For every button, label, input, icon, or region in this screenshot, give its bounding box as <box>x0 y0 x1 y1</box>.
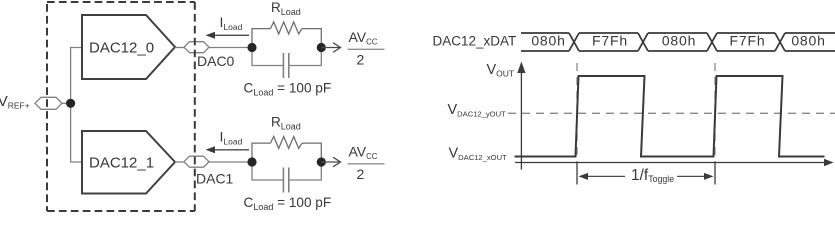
svg-text:2: 2 <box>357 166 365 182</box>
node right (upper) <box>317 43 326 52</box>
svg-text:DAC12_1: DAC12_1 <box>89 155 154 172</box>
wire VREF+ vertical bus <box>71 48 82 163</box>
node left (lower) <box>247 157 256 166</box>
DAC12_1 block <box>82 131 175 194</box>
module boundary dashed box <box>47 2 195 211</box>
node right (lower) <box>317 157 326 166</box>
transition marker dashed vertical 1 <box>576 63 578 162</box>
resistor RLoad (lower) <box>252 137 321 158</box>
svg-text:080h: 080h <box>662 33 696 49</box>
output waveform VOUT <box>515 76 825 157</box>
bus data labels <box>531 33 825 49</box>
label AVCC/2 (upper) <box>348 29 385 67</box>
label AVCC/2 (lower) <box>348 144 385 182</box>
pin DAC0 hexagon <box>184 42 209 53</box>
bus top lines <box>521 32 835 34</box>
pin DAC1 hexagon <box>184 156 209 167</box>
current arrow ILoad (upper) <box>206 32 250 39</box>
time axis <box>515 159 834 166</box>
data bus waveform <box>521 33 835 51</box>
bus bottom lines <box>521 50 835 52</box>
svg-text:DAC12_xDAT: DAC12_xDAT <box>433 34 517 49</box>
transition marker solid 1 <box>576 162 578 185</box>
wire to AVCC/2 (upper) <box>321 43 340 53</box>
svg-text:DAC12_0: DAC12_0 <box>89 40 154 57</box>
crossover 1 <box>569 33 579 51</box>
svg-text:DAC1: DAC1 <box>196 171 234 187</box>
transition marker dashed vertical 2 <box>714 63 716 162</box>
capacitor CLoad (upper) <box>252 52 321 78</box>
wire to AVCC/2 (lower) <box>321 157 340 167</box>
svg-text:2: 2 <box>357 52 365 68</box>
svg-text:080h: 080h <box>531 33 565 49</box>
DAC12_0 block <box>82 15 175 79</box>
node left (upper) <box>247 43 256 52</box>
svg-text:DAC0: DAC0 <box>197 53 235 69</box>
junction VREF+ node <box>66 99 75 108</box>
crossover 3 <box>707 33 717 51</box>
toggle period arrow right <box>677 173 714 180</box>
transition marker solid 2 <box>714 162 716 185</box>
wire DAC0 to load node <box>209 47 252 49</box>
crossover 2 <box>638 33 648 51</box>
wire DAC12_1 output <box>175 161 184 163</box>
resistor RLoad (upper) <box>252 22 321 43</box>
svg-text:F7Fh: F7Fh <box>730 33 766 49</box>
capacitor CLoad (lower) <box>252 167 321 193</box>
svg-text:F7Fh: F7Fh <box>592 33 628 49</box>
current arrow ILoad (lower) <box>206 146 250 153</box>
crossover 4 <box>775 33 785 51</box>
wire VREF+ pin to junction <box>62 102 71 104</box>
dashed level line yOUT <box>508 112 835 114</box>
V axis <box>517 62 525 170</box>
pin VREF+ hexagon <box>35 97 62 109</box>
wire DAC1 to load node <box>209 161 252 163</box>
toggle period arrow left <box>579 173 626 180</box>
svg-text:080h: 080h <box>791 33 825 49</box>
wire DAC12_0 output <box>175 47 184 49</box>
